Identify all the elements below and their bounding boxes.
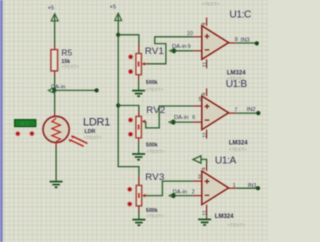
pin stub R5 bottom: [54, 71, 56, 77]
svg-text:LDR: LDR: [85, 129, 96, 135]
svg-text:4: 4: [202, 93, 208, 96]
terminal dot IN1: [256, 186, 260, 190]
pin stub U1:A GND (11): [206, 205, 208, 217]
svg-text:6: 6: [192, 115, 195, 121]
svg-text:4: 4: [202, 167, 208, 170]
potentiometer RV3: [136, 185, 146, 206]
svg-text:5: 5: [199, 97, 202, 103]
wire pin 11 to ground: [206, 217, 208, 219]
wire +5 to R5: [54, 21, 56, 45]
svg-text:3: 3: [198, 174, 201, 180]
pin stub RV3 bottom: [138, 206, 140, 212]
ground (RV1): [132, 91, 145, 97]
svg-text:IN1: IN1: [248, 183, 257, 189]
svg-text:<TEXT>: <TEXT>: [228, 223, 246, 229]
svg-text:11: 11: [202, 132, 208, 138]
pin stub U1:B V+ (4): [206, 88, 208, 96]
RV1 button dot bottom: [128, 69, 133, 74]
display pin dot 1: [15, 131, 20, 136]
RV1 button dot top: [128, 54, 133, 59]
RV3 button dot bottom: [127, 201, 132, 206]
pin stub U1:A V+ (4): [206, 164, 208, 171]
wire +5 rail vertical: [118, 21, 139, 176]
potentiometer RV2: [136, 116, 146, 137]
svg-text:<TEXT>: <TEXT>: [147, 149, 165, 155]
pin stub RV2 top: [138, 111, 140, 116]
pin stub U1:A out (1): [229, 187, 237, 189]
pin stub RV1 bottom: [138, 75, 140, 81]
pin stub U1:B +in (5): [193, 105, 202, 107]
wire RV1 to ground: [138, 81, 140, 91]
power +5 (rail): [110, 4, 122, 21]
svg-text:500k: 500k: [146, 80, 158, 86]
ground (LDR): [50, 182, 63, 188]
display module (left edge): [15, 120, 36, 128]
svg-text:<TEXT>: <TEXT>: [202, 1, 220, 7]
wire DA-in to pin 2: [174, 195, 194, 197]
wire RV3 wiper to U1:A pin3: [146, 181, 193, 196]
svg-text:-5.1: -5.1: [20, 121, 29, 127]
terminal DA-in (pin 9): [170, 49, 175, 53]
svg-text:DA-in: DA-in: [172, 44, 187, 50]
wire R5 to node: [54, 77, 56, 91]
RV2 button dot top: [128, 117, 133, 122]
wire out to IN1: [236, 187, 258, 189]
terminal DA-in (pin 2): [169, 194, 174, 198]
svg-text:<TEXT>: <TEXT>: [146, 87, 164, 93]
pin stub U1:A +in (3): [193, 180, 202, 182]
pin stub U1:C out (8): [229, 42, 237, 44]
wire DA-in to pin 6: [174, 121, 194, 123]
terminal DA-in arrow (left): [48, 88, 53, 93]
sheet border: [0, 0, 3, 242]
svg-text:U1:A: U1:A: [215, 156, 237, 167]
pin stub U1:C GND (11): [206, 59, 208, 68]
svg-text:R5: R5: [61, 47, 72, 57]
terminal dot DA-in end: [95, 88, 99, 92]
svg-text:IN3: IN3: [241, 37, 250, 43]
terminal DA-in (pin 6): [169, 120, 174, 124]
wire RV3 to ground: [138, 212, 140, 220]
svg-text:LM324: LM324: [227, 70, 246, 76]
svg-text:+5: +5: [48, 5, 55, 11]
pin stub U1:B -in (6): [193, 121, 202, 123]
svg-text:DA-in: DA-in: [173, 189, 188, 195]
wire rail to RV1: [118, 35, 139, 45]
wire DA-in horizontal: [54, 89, 96, 91]
svg-text:IN2: IN2: [247, 107, 256, 113]
svg-text:11: 11: [202, 62, 208, 68]
wire DA-in to pin 9: [174, 50, 193, 52]
svg-text:<TEXT>: <TEXT>: [84, 135, 102, 141]
LDR light arrows: [69, 136, 88, 147]
svg-text:LM324: LM324: [215, 214, 234, 220]
wire RV1 wiper to U1:C pin10: [146, 37, 193, 64]
svg-text:8: 8: [235, 37, 238, 43]
wire node to LDR: [54, 90, 56, 111]
terminal dot IN3: [255, 41, 259, 45]
terminal dot IN2: [256, 111, 260, 115]
svg-text:DA-in: DA-in: [174, 115, 189, 121]
pin stub U1:B out (7): [229, 112, 237, 114]
power terminal (U1:A pin 4): [193, 156, 201, 163]
pin stub U1:C -in (9): [193, 50, 202, 52]
junction rail-RV1: [116, 33, 120, 37]
svg-text:LM324: LM324: [229, 140, 248, 146]
svg-text:<TEXT>: <TEXT>: [229, 147, 247, 153]
LDR1 body: [43, 116, 69, 142]
pin stub RV3 top: [138, 176, 140, 186]
svg-text:U1:C: U1:C: [229, 10, 251, 21]
pin stub U1:C +in (10): [193, 36, 202, 38]
ground (U1:A): [198, 219, 211, 225]
pin stub U1:C V+ (4): [206, 18, 208, 26]
svg-text:500k: 500k: [146, 208, 158, 214]
svg-text:<TEXT>: <TEXT>: [146, 214, 164, 220]
wire RV2 to ground: [138, 142, 140, 153]
svg-text:2: 2: [192, 189, 195, 195]
pin stub U1:A -in (2): [193, 195, 202, 197]
wire LDR to ground: [55, 148, 57, 181]
resistor R5: [51, 50, 58, 71]
potentiometer RV1: [136, 54, 146, 75]
svg-text:LDR1: LDR1: [83, 117, 110, 129]
wire out to IN2: [236, 112, 258, 114]
wire RV2 wiper to U1:B pin5: [146, 106, 194, 128]
svg-text:11: 11: [202, 210, 208, 216]
svg-text:RV1: RV1: [145, 46, 164, 57]
pin stub RV1 top: [138, 45, 140, 54]
wire out to IN3: [236, 42, 256, 44]
svg-text:1: 1: [233, 183, 236, 189]
display pin dot 2: [29, 131, 34, 136]
svg-text:10: 10: [187, 31, 193, 37]
RV3 button dot top: [127, 187, 132, 192]
svg-text:4: 4: [201, 23, 207, 26]
svg-text:9: 9: [188, 44, 191, 50]
pin stub LDR bottom: [55, 143, 57, 149]
power +5 (left, R5 branch): [48, 5, 59, 21]
op-amp U1:C: [202, 26, 229, 60]
pin stub U1:B GND (11): [206, 130, 208, 139]
op-amp U1:B: [202, 96, 229, 130]
svg-text:U1:B: U1:B: [226, 79, 248, 90]
ground (RV2): [132, 154, 145, 160]
ground (RV3): [132, 220, 145, 226]
pin stub R5 top: [54, 45, 56, 50]
RV2 button dot bottom: [128, 132, 133, 137]
junction rail-RV2: [116, 103, 120, 107]
op-amp U1:A: [202, 171, 229, 205]
node A junction dot: [52, 88, 56, 92]
svg-text:500k: 500k: [146, 143, 158, 149]
pin stub LDR top: [54, 112, 56, 118]
svg-text:RV3: RV3: [145, 172, 164, 183]
pin stub RV2 bottom: [138, 138, 140, 143]
wire rail to RV2: [118, 106, 139, 112]
svg-text:+5: +5: [110, 4, 117, 10]
svg-text:<TEXT>: <TEXT>: [61, 64, 79, 70]
